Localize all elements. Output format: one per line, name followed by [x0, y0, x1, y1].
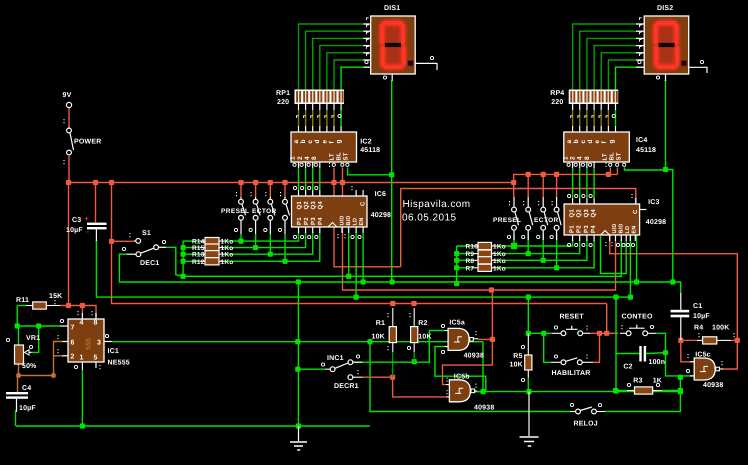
wire presel1 switch 2 drop [255, 234, 257, 248]
svg-text:IC2: IC2 [360, 139, 372, 146]
wire IC2 LT net: down, right, up to y188 rail, to IC3 top pin [334, 168, 401, 267]
svg-text:R1: R1 [376, 320, 385, 327]
resistor R7 1Ko [478, 264, 492, 271]
svg-text:Q3: Q3 [310, 201, 317, 210]
resistor R8 1Ko [478, 257, 492, 264]
node R2 bottom [412, 359, 417, 364]
svg-text:3: 3 [97, 340, 101, 347]
wire DIS2 segment wire 4 [594, 46, 636, 90]
svg-text:-: - [87, 227, 90, 236]
svg-text:ECTOR: ECTOR [252, 208, 277, 215]
wire Vcc long drop to lower red rail [112, 241, 607, 303]
switch RESET pushbutton [561, 331, 566, 336]
svg-text:RP1: RP1 [276, 90, 290, 97]
potentiometer VR1 50% [15, 345, 24, 364]
svg-text:BL: BL [609, 152, 616, 161]
ground symbol 2 [520, 437, 539, 446]
wire IC4 pins 1,2,4,8 to IC3 Q pins [572, 168, 574, 198]
wire RESET/HABILITAR greens [528, 333, 551, 362]
svg-text:R11: R11 [16, 297, 29, 304]
resistor R12 1Ko [205, 258, 219, 265]
wire IC6 pin drop x356 [355, 233, 357, 297]
node R2 top [411, 301, 416, 306]
wire C4 bottom to ground bus [16, 399, 18, 412]
wire C1 bottom to IC5c input 1 [681, 340, 694, 361]
wire IC2 pins 1,2,4,8 to IC6 Q pins [298, 168, 300, 190]
svg-text:HABILITAR: HABILITAR [552, 370, 591, 377]
svg-text:P2: P2 [576, 225, 583, 233]
terminal 9V battery [66, 102, 71, 107]
node rows-left on bus 282 [454, 281, 459, 286]
capacitor C3 10uF [87, 223, 107, 225]
svg-text:P3: P3 [583, 225, 590, 233]
svg-text:6: 6 [71, 340, 75, 347]
ground symbol 1 [298, 426, 300, 441]
wire clock drop to RELOJ line [370, 342, 570, 412]
svg-text:POWER: POWER [74, 139, 101, 146]
svg-text:45118: 45118 [360, 147, 380, 154]
svg-text:IC1: IC1 [108, 348, 120, 355]
svg-text:+: + [85, 216, 89, 223]
wire IC6 pin drop x363 [362, 233, 364, 282]
svg-text:e: e [594, 140, 601, 144]
svg-text:1Ko: 1Ko [221, 259, 234, 266]
svg-text:DECR1: DECR1 [334, 383, 359, 390]
wire DIS2 segment wire 6 [608, 60, 636, 90]
wire right rows common column to bus 282 [456, 246, 458, 284]
svg-text:c: c [580, 140, 587, 144]
wire DIS2 segment wire 5 [601, 53, 636, 90]
svg-text:45118: 45118 [636, 147, 656, 154]
wire preset row 8 left [457, 267, 473, 269]
wire VR1 wiper loop [29, 326, 39, 352]
IC IC3 4029B counter [564, 204, 640, 235]
switch CONTEO pushbutton [626, 331, 631, 336]
wire presel1 switch feeds from bus [240, 183, 242, 198]
node U/D junction IC6 [346, 274, 351, 279]
svg-text:R3: R3 [633, 378, 642, 385]
switch PRESELECTOR bank 2 [513, 197, 515, 207]
svg-text:IC5b: IC5b [454, 372, 470, 380]
wire C2 left stub [616, 353, 640, 355]
svg-text:40938: 40938 [464, 353, 484, 360]
svg-text:10K: 10K [418, 334, 431, 341]
wire preset row 4 left [183, 260, 200, 262]
svg-text:06.05.2015: 06.05.2015 [402, 213, 457, 224]
wire IC4 LT pin red [609, 168, 611, 175]
svg-text:C: C [360, 201, 367, 206]
wire INC1 common [298, 368, 325, 370]
node IC5c in2 riser [678, 375, 683, 380]
wire presel2 switch 1 drop [513, 234, 515, 246]
wire DIS1 bottom stub [391, 74, 393, 81]
svg-text:15K: 15K [49, 293, 62, 300]
wire RELOJ right to IC5b net [605, 377, 680, 411]
svg-text:4: 4 [577, 156, 584, 160]
resistor R9 1Ko [478, 250, 492, 257]
svg-text:EN: EN [631, 225, 637, 233]
svg-text:1Ko: 1Ko [493, 258, 506, 265]
wire preset row 6 left [457, 253, 473, 255]
svg-text:50%: 50% [22, 363, 37, 370]
svg-text:Q2: Q2 [303, 201, 310, 210]
svg-text:2: 2 [570, 156, 577, 160]
svg-text:DEC1: DEC1 [140, 260, 159, 267]
wire DECR1 to IC5b input 2 red [362, 377, 446, 397]
wire RESET right contact red [590, 332, 618, 334]
svg-text:Q4: Q4 [590, 209, 597, 218]
wire RESET riser [527, 297, 529, 333]
display DIS1 [371, 16, 416, 74]
svg-text:B/D: B/D [346, 215, 352, 225]
wire Vcc down-left branch to R11 node and 555 pins 4,8 [68, 183, 70, 306]
svg-text:ST: ST [616, 152, 623, 160]
wire left rows common column [182, 241, 184, 276]
svg-text:4: 4 [304, 156, 311, 160]
switch S1 DEC1 [136, 239, 141, 244]
svg-text:VR1: VR1 [26, 335, 40, 342]
svg-text:Q4: Q4 [317, 201, 324, 210]
switch RELOJ [576, 409, 581, 414]
resistor R2 10K [411, 327, 418, 343]
wire presel1 switch 4 drop [284, 234, 286, 261]
IC5b pin stubs [446, 384, 449, 386]
wire RP4 to IC4 stubs [572, 104, 574, 110]
display DIS2 [644, 16, 689, 74]
resistor R5 10K [525, 355, 532, 370]
resistor pack RP1 220 [295, 90, 345, 105]
wire IC4 BL pin red [616, 168, 618, 175]
wire 555 pin7 line [17, 306, 60, 327]
switch HABILITAR [561, 360, 566, 365]
wire S1 feed [112, 240, 135, 242]
svg-text:C1: C1 [693, 303, 702, 310]
svg-text:g: g [336, 139, 343, 143]
wire C3 lower stub white [95, 230, 97, 242]
wire DIS2 segment wire 1 [573, 24, 636, 90]
svg-text:LD: LD [353, 218, 359, 226]
wire C1 elbow [673, 282, 681, 293]
wire preset row 3 left [183, 253, 200, 255]
svg-text:ST: ST [343, 152, 350, 160]
wire red rail right end down to RESET/CONTEO/HABILITAR [606, 304, 608, 334]
svg-text:DIS1: DIS1 [384, 5, 400, 12]
svg-text:555: 555 [86, 338, 93, 350]
svg-text:U/D: U/D [340, 215, 346, 225]
svg-text:EN: EN [359, 217, 365, 225]
IC1 pin stubs [60, 325, 68, 327]
wire DIS1 dp stub [415, 63, 437, 70]
display DIS1 pin stubs [363, 23, 370, 25]
resistor R14 1Ko [205, 238, 219, 245]
wire DIS1 segment wire 1 [299, 24, 364, 90]
svg-text:40938: 40938 [703, 382, 723, 389]
node R1 bottom junction [390, 375, 395, 380]
svg-text:a: a [566, 140, 573, 144]
wire DEC1 common line y276 [166, 247, 183, 276]
svg-text:R10: R10 [466, 244, 479, 251]
IC5a pin stubs [444, 330, 448, 332]
svg-text:IC3: IC3 [648, 199, 660, 206]
svg-text:1Ko: 1Ko [221, 252, 234, 259]
wire INC1 top contact to IC5a input 1 [352, 331, 444, 363]
svg-text:b: b [573, 139, 580, 143]
wire presel1 switch 1 drop [240, 234, 242, 241]
svg-text:8: 8 [311, 156, 318, 160]
resistor R1 10K [389, 327, 396, 343]
svg-text:IC5a: IC5a [449, 320, 465, 327]
capacitor C1 10uF [671, 310, 690, 313]
gate IC5a 40938 NAND schmitt [448, 328, 469, 350]
wire IC6 U/D pin drop [348, 233, 350, 276]
svg-text:IC4: IC4 [636, 137, 648, 144]
IC6 top pin stubs [298, 190, 300, 196]
wire IC3 pin drop x630 [629, 234, 631, 297]
svg-text:S1: S1 [142, 230, 151, 237]
wire preset row 7 left [457, 259, 473, 261]
IC4 bottom pin stubs [572, 162, 574, 168]
wire IC5a output red to IC5b in1 [443, 339, 493, 384]
wire C4 top [17, 376, 19, 393]
wire DIS1 segment wire 7 [341, 67, 363, 89]
svg-text:1: 1 [80, 355, 84, 362]
wire C2/R3 riser [615, 297, 617, 390]
svg-text:d: d [587, 139, 594, 143]
wire green bus y282 (S1 lower contact net) [119, 254, 672, 282]
wire DIS1 bottom vertical [391, 80, 393, 282]
wire presel2 switch feeds [513, 183, 515, 198]
node ground stem [296, 423, 301, 428]
IC6 bottom pin stubs [298, 227, 300, 233]
IC IC6 4029B counter [292, 196, 368, 227]
svg-text:R8: R8 [466, 258, 475, 265]
wire R3 left stub green [616, 390, 627, 392]
resistor R15 1Ko [205, 244, 219, 251]
svg-text:100n: 100n [649, 359, 666, 366]
capacitor C2 100n [639, 346, 641, 362]
capacitor C4 10uF [6, 392, 28, 394]
svg-text:C3: C3 [72, 217, 81, 224]
wire IC3 pin to R4/IC5c red rail [610, 234, 738, 340]
svg-text:BL: BL [336, 152, 343, 161]
wire VR1 top [18, 326, 20, 345]
svg-text:10µF: 10µF [66, 227, 83, 234]
svg-text:IC5c: IC5c [695, 352, 711, 359]
wire IC4 ST to DIS2 bottom net [624, 168, 665, 171]
resistor pack RP4 220 [569, 90, 619, 105]
wire IC2 BL net down right into y290 rail [343, 168, 616, 291]
svg-text:R12: R12 [192, 259, 205, 266]
svg-text:4: 4 [80, 320, 84, 327]
svg-text:c: c [307, 140, 314, 144]
wire presel2 switch 2 drop [527, 234, 529, 254]
resistor R13 1Ko [205, 251, 219, 258]
svg-text:2: 2 [71, 354, 75, 361]
svg-text:LD: LD [625, 226, 631, 234]
svg-text:P1: P1 [569, 225, 576, 233]
IC5c pin stubs [690, 361, 694, 363]
resistor R4 100K [703, 337, 717, 344]
svg-text:8: 8 [584, 156, 591, 160]
svg-text:5: 5 [94, 355, 98, 362]
svg-text:Q1: Q1 [296, 201, 303, 210]
svg-text:9V: 9V [63, 92, 72, 99]
wire Vcc drop to C3 [95, 183, 97, 223]
node Vcc corner [66, 180, 71, 185]
svg-text:DIS2: DIS2 [657, 5, 673, 12]
svg-text:LT: LT [601, 153, 608, 160]
svg-text:R5: R5 [513, 353, 522, 360]
wire preset row 1 left [183, 240, 200, 242]
svg-text:40298: 40298 [646, 219, 666, 226]
node C1 riser [670, 279, 675, 284]
wire center vertical x298 [297, 282, 299, 426]
svg-text:C2: C2 [623, 363, 632, 370]
svg-text:220: 220 [277, 99, 289, 106]
wire presel2 switch 3 drop [542, 234, 544, 260]
wire green bus y297 from C3 [96, 240, 630, 297]
svg-text:RELOJ: RELOJ [574, 421, 598, 428]
svg-text:R7: R7 [466, 265, 475, 272]
svg-text:220: 220 [551, 99, 563, 106]
svg-text:RP4: RP4 [550, 90, 564, 97]
node R1 top [390, 301, 395, 306]
IC IC2 4511B decoder [291, 132, 357, 162]
wire VR1 bottom orange to 555 pins 6,2 [18, 364, 20, 376]
node C2 right [663, 350, 668, 355]
svg-text:P2: P2 [303, 217, 310, 225]
svg-text:P3: P3 [310, 217, 317, 225]
wire C2 right stub [646, 352, 666, 355]
wire DIS1 segment wire 3 [313, 38, 364, 89]
svg-text:IC6: IC6 [375, 191, 387, 198]
wire DIS1 segment wire 4 [320, 46, 364, 90]
node DIS1 net on bus 282 [390, 279, 395, 284]
wire C2 right to IC5c in2 [666, 353, 695, 376]
IC3 carry pin stub [640, 209, 647, 211]
wire 555 output pin3 line [112, 341, 483, 343]
svg-text:e: e [321, 140, 328, 144]
wire HABILITAR right contact red [593, 333, 600, 362]
svg-text:40938: 40938 [474, 405, 494, 412]
IC3 bottom pin stubs [572, 235, 574, 241]
svg-text:1Ko: 1Ko [493, 244, 506, 251]
svg-text:100K: 100K [712, 325, 730, 332]
svg-text:C: C [632, 209, 639, 214]
svg-text:Q2: Q2 [576, 209, 583, 218]
wire Vcc drop to S1 [111, 183, 113, 242]
svg-text:LT: LT [329, 153, 336, 160]
wire 9V to POWER switch [68, 108, 70, 128]
IC2 bottom pin stubs [298, 162, 300, 168]
svg-text:R4: R4 [694, 325, 703, 332]
IC IC1 NE555 timer [68, 319, 104, 362]
svg-text:10K: 10K [510, 362, 523, 369]
svg-text:P1: P1 [296, 217, 303, 225]
svg-text:a: a [293, 140, 300, 144]
svg-text:C4: C4 [22, 385, 31, 392]
wire presel1 switch 3 drop [269, 234, 271, 254]
svg-text:Q1: Q1 [569, 209, 576, 218]
wire ground 2 stem [528, 392, 530, 436]
resistor R10 1Ko [478, 242, 492, 249]
svg-text:1: 1 [290, 156, 297, 160]
svg-text:10µF: 10µF [693, 313, 710, 320]
svg-text:Q3: Q3 [583, 209, 590, 218]
wire IC5c output to R4 right rail [722, 340, 737, 369]
svg-text:1Ko: 1Ko [493, 265, 506, 272]
wire ground bus bottom [16, 425, 370, 427]
svg-text:U/D: U/D [612, 223, 618, 233]
svg-text:CONTEO: CONTEO [622, 313, 654, 320]
svg-text:g: g [608, 139, 615, 143]
wire DIS2 segment wire 7 [616, 67, 637, 89]
svg-text:PRESEL: PRESEL [493, 217, 521, 224]
node R4 right [735, 338, 740, 343]
wire Vcc red bus [69, 174, 618, 182]
wire IC3 clock loop [601, 236, 627, 274]
svg-text:Hispavila.com: Hispavila.com [403, 199, 471, 210]
svg-text:INC1: INC1 [327, 355, 344, 362]
wire DIS2 bottom stub [665, 74, 667, 81]
node C1/R4 left [678, 338, 683, 343]
svg-text:1: 1 [563, 156, 570, 160]
wire CONTEO right to C2 right node [656, 333, 666, 352]
svg-text:b: b [300, 139, 307, 143]
wire IC5b output feedback loop to IC5a in2 [435, 347, 486, 392]
svg-text:8: 8 [94, 320, 98, 327]
svg-text:10K: 10K [372, 334, 385, 341]
gate IC5c 40938 NAND schmitt [694, 358, 715, 380]
switch POWER [67, 128, 72, 133]
wire IC3 pin drop x636 [636, 234, 638, 282]
svg-text:PRESEL: PRESEL [221, 208, 249, 215]
wire preset row 2 left [183, 247, 200, 249]
svg-text:7: 7 [71, 325, 75, 332]
display DIS2 pin stubs [636, 23, 644, 25]
wire DIS2 dp stub [689, 67, 707, 73]
gate IC5b 40938 NAND schmitt [449, 380, 470, 402]
wire POWER switch to bus [68, 156, 70, 183]
wire R3 right link [662, 390, 680, 392]
svg-text:40298: 40298 [371, 212, 391, 219]
wire DIS1 segment wire 5 [327, 53, 363, 90]
switch INC1 / DECR1 [330, 367, 335, 372]
wire DIS2 bottom vertical [665, 80, 667, 170]
svg-text:P4: P4 [317, 217, 324, 225]
switch PRESELECTOR bank 1 [240, 197, 242, 199]
svg-text:B/D: B/D [619, 223, 625, 233]
IC3 top pin stubs [572, 198, 574, 204]
svg-text:NE555: NE555 [108, 360, 130, 367]
svg-text:10µF: 10µF [19, 405, 36, 412]
wire DIS2 segment wire 2 [580, 31, 636, 89]
svg-text:ECTOR: ECTOR [534, 217, 559, 224]
svg-text:d: d [314, 139, 321, 143]
resistor R3 1K [635, 387, 653, 394]
wire DIS1 segment wire 2 [306, 31, 364, 89]
wire RP1 to IC2 stubs [298, 104, 300, 110]
svg-text:R2: R2 [418, 320, 427, 327]
svg-text:2: 2 [297, 156, 304, 160]
wire preset row 5 left [457, 245, 473, 247]
wire 555 pin1 down [81, 370, 83, 426]
wire IC2 ST to DIS1 bottom net [348, 168, 392, 175]
wire DIS2 segment wire 3 [587, 38, 636, 89]
wire presel2 switch 4 drop [556, 234, 558, 268]
wire DIS1 segment wire 6 [334, 60, 363, 90]
resistor R11 15K [33, 302, 47, 309]
